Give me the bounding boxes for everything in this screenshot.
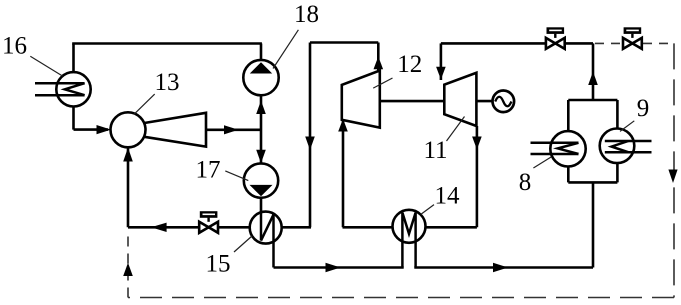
pointer 9: [620, 121, 634, 132]
svg-text:15: 15: [206, 251, 231, 278]
wire HX14 horizontal line: [343, 226, 477, 229]
wire bottom bus: [274, 266, 404, 269]
evaporator block rails: [568, 99, 617, 102]
turbine 11: [444, 73, 476, 126]
wire turbine 12 outlet: [377, 43, 380, 73]
coil of HX16 with source stream lines: [35, 83, 85, 95]
arrow down on exhaust: [472, 137, 482, 150]
shaft turbine 12 to turbine 11: [380, 100, 445, 103]
arrow into ejector 13: [97, 125, 112, 134]
arrow up into ejector 13 bottom: [123, 148, 133, 162]
svg-text:14: 14: [435, 182, 461, 209]
pointer 11: [447, 117, 465, 142]
arrow right on bus (left): [326, 263, 341, 272]
wire turbine 11 exhaust: [476, 126, 479, 227]
turbine 12: [342, 71, 380, 128]
arrow down on riser x310: [305, 137, 315, 151]
pointer 8: [533, 157, 551, 168]
wire left condensate line (15 to left riser): [128, 226, 251, 229]
arrow down into turbine 11: [436, 67, 446, 80]
svg-text:9: 9: [637, 95, 650, 122]
arrow up on turbine 12 outlet: [374, 57, 384, 70]
pump 18: [243, 60, 278, 95]
arrow up into pump 18: [256, 101, 266, 115]
heat exchanger 9: [600, 129, 635, 164]
wire turbine 11 inlet: [440, 43, 443, 80]
arrow right on bus (right): [493, 263, 508, 272]
pointer 13: [134, 94, 155, 114]
arrow down into pump 17: [256, 150, 266, 164]
svg-text:18: 18: [294, 1, 319, 28]
svg-text:17: 17: [196, 157, 221, 184]
coil of HX15: [261, 212, 274, 267]
wire ejector outlet: [206, 129, 262, 132]
coil of HX14: [402, 213, 415, 268]
pointer 18: [273, 30, 298, 69]
arrow down on right dashed line: [668, 170, 677, 184]
pointer 16: [30, 56, 62, 76]
label pointer lines: [30, 30, 634, 252]
wire HX16 vertical stem: [72, 44, 75, 130]
wire evaporator block top stem: [592, 43, 595, 100]
arrow on ejector outlet: [224, 125, 239, 134]
ejector 13 circle: [111, 112, 146, 147]
dashed bypass border: [128, 43, 674, 297]
wire HX16 outlet to ejector inlet: [74, 128, 109, 131]
svg-text:16: 16: [2, 32, 27, 59]
ejector 13 diffuser: [144, 113, 206, 147]
arrow left on condensate line: [151, 223, 167, 232]
heat exchanger 16: [56, 72, 90, 106]
wire top-left header (16 to pump 18): [72, 42, 262, 45]
pointer 14: [421, 205, 434, 215]
wire riser x310 down to HX15: [309, 43, 312, 228]
heat exchanger 15: [282, 226, 312, 229]
svg-text:8: 8: [519, 169, 532, 196]
pointer 12: [373, 78, 392, 88]
svg-text:11: 11: [423, 137, 447, 164]
arrow up on left dashed line: [123, 263, 133, 276]
valve V1 on top header: [546, 27, 565, 49]
wire top middle: [310, 41, 378, 44]
heat exchanger 8: [550, 131, 585, 166]
wire riser into turbine 12: [342, 119, 345, 227]
svg-text:12: 12: [397, 51, 422, 78]
pointer 15: [234, 236, 252, 252]
wire pump column (18 / 17): [260, 44, 263, 214]
arrow up into turbine 12: [338, 119, 348, 132]
valve V3 on condensate line: [199, 211, 218, 233]
heat exchanger 14: [393, 210, 426, 243]
pump 17: [244, 163, 278, 197]
generator G: [493, 91, 515, 113]
arrow up on block top stem: [588, 72, 598, 86]
svg-text:13: 13: [155, 69, 180, 96]
generator shaft: [476, 100, 493, 103]
pointer 17: [225, 171, 248, 181]
valve V2 on dashed line: [623, 27, 642, 49]
wire top right header: [441, 42, 593, 45]
wire left riser to ejector bottom: [127, 147, 130, 227]
wire evaporator block bottom stem: [592, 182, 595, 267]
